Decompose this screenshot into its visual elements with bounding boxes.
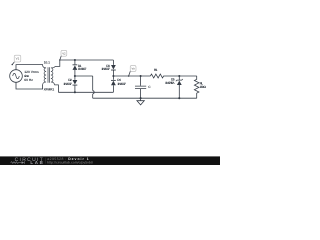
diode D2 body xyxy=(73,80,78,85)
svg-text:1N4007: 1N4007 xyxy=(63,82,72,86)
junction node M1 xyxy=(74,75,76,77)
diode D3 leads xyxy=(112,60,114,76)
diode D2 leads xyxy=(74,76,76,92)
wire V1 bottom to transformer primary bottom xyxy=(16,82,43,89)
zener diode D5 body xyxy=(177,81,182,85)
wire M2 positive output rail xyxy=(113,75,150,77)
transformer XFMR1 secondary winding xyxy=(51,66,55,85)
diode D4 leads xyxy=(112,76,114,92)
label Vo flag xyxy=(129,66,136,76)
svg-text:60 Hz: 60 Hz xyxy=(24,78,33,82)
junction node zener top xyxy=(178,75,180,77)
svg-text:180 Ω: 180 Ω xyxy=(200,85,207,89)
wire top rail xyxy=(60,59,114,61)
resistor RL xyxy=(194,76,199,98)
wire secondary top to top rail xyxy=(55,60,60,66)
transformer core xyxy=(48,67,50,83)
voltage source V1 xyxy=(10,70,23,83)
diode D1 body xyxy=(73,65,78,70)
resistor R1 xyxy=(150,74,179,78)
svg-text:Vo: Vo xyxy=(131,67,135,71)
wire bottom rail xyxy=(93,97,197,99)
svg-text:XFMR1: XFMR1 xyxy=(44,87,55,91)
svg-text:LAB: LAB xyxy=(30,160,42,165)
diode D1 leads xyxy=(74,60,76,76)
label V1 flag xyxy=(12,55,21,64)
footer bar xyxy=(0,156,220,165)
svg-text:R1: R1 xyxy=(154,68,158,72)
junction node zener bottom xyxy=(178,97,180,99)
svg-text:V1: V1 xyxy=(16,57,20,61)
footer CircuitLab logo xyxy=(11,157,43,165)
junction node D2 / AC bottom xyxy=(74,91,76,93)
label V2 flag xyxy=(60,50,67,60)
transformer XFMR1 primary winding xyxy=(43,65,47,85)
wire M1 negative output with hop over AC net xyxy=(75,76,94,98)
junction node cap bottom xyxy=(140,97,142,99)
junction node V1 attach xyxy=(12,64,13,65)
capacitor C plates xyxy=(135,86,146,89)
svg-text:http://circuitlab.com/c/py5vb8: http://circuitlab.com/c/py5vb8 xyxy=(47,161,93,165)
svg-text:1N4007: 1N4007 xyxy=(117,82,126,86)
wire AC bottom net xyxy=(58,91,113,93)
zener diode D5 bar xyxy=(176,79,183,81)
wire secondary bottom jog xyxy=(54,85,58,92)
wire V1 top to transformer primary top xyxy=(16,65,43,70)
svg-text:10:1: 10:1 xyxy=(44,60,50,64)
svg-text:V2: V2 xyxy=(62,51,66,55)
capacitor C leads xyxy=(140,76,142,98)
junction node top rail / D1 xyxy=(74,59,76,61)
junction node Vo attach xyxy=(128,75,130,77)
svg-text:1N4745A: 1N4745A xyxy=(165,81,175,85)
zener diode D5 leads xyxy=(178,76,180,98)
svg-text:1N4007: 1N4007 xyxy=(78,67,87,71)
svg-text:1N4007: 1N4007 xyxy=(101,67,110,71)
footer separator xyxy=(44,158,46,164)
junction node cap top xyxy=(140,75,142,77)
junction node V2 attach xyxy=(59,59,60,60)
wire R1 to RL xyxy=(179,75,197,77)
diode D3 body xyxy=(111,65,116,70)
ground xyxy=(137,98,144,105)
junction node M2 xyxy=(112,75,114,77)
diode D4 body xyxy=(111,81,116,86)
